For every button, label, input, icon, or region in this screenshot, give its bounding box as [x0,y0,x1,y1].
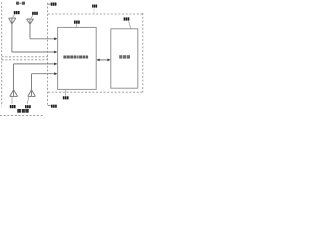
arrowhead into RF box (wire 3) [54,63,57,66]
outer dashed right edge [142,13,144,92]
node label 10-A (top-left figure tag) [16,2,25,5]
wire ANT4 to RF box [31,74,33,90]
outer dashed bottom edge [48,91,143,93]
label 104 (controller box) [124,17,131,28]
antenna ANT3 (bottom-left) [10,90,18,97]
label 102 (RF box) [74,21,80,28]
wire ANT2 to RF box [29,24,31,39]
dashed line bottom (next figure edge) [0,115,44,117]
antenna ANT2 (top-right) [27,19,34,24]
arrowhead into RF box (wire 1) [54,51,57,54]
label 112 (ANT2) [31,12,38,19]
label 116 (ANT4) [25,97,31,108]
label 110 (ANT1) [13,11,20,17]
arrowhead right (into controller) [107,59,110,62]
wire ANT3 to RF box [13,64,15,90]
label 106 [92,5,97,14]
label 118 (below RF box) [63,90,69,100]
controller box text (CJK blob row) [119,55,130,58]
figure caption (bottom-left CJK blobs) [17,109,28,113]
antenna ANT1 (top-left) [9,18,16,24]
dashed divider y=59.8 (box B top) [2,59,48,61]
dashed box right outline (processing module) [48,13,143,92]
left dashed edge [1,2,3,106]
label 114 (ANT3) [10,97,16,108]
label 120 (bottom of divider) [48,105,57,108]
dashed divider y=56.8 (box A bottom) [2,56,48,58]
label 100 [48,3,57,6]
wire RF box to controller (double arrow) [98,59,110,61]
RF box text (CJK blob row) [63,56,88,59]
dashed box left outline (antenna module) [2,2,48,106]
RF processor box U1 [58,27,97,89]
arrowhead into RF box (wire 4) [54,72,57,75]
outer dashed top edge [48,13,143,15]
controller box U2 [111,29,138,88]
arrowhead left (into RF box) [96,59,99,62]
antenna ANT4 (bottom-right) [28,90,36,97]
wire ANT1 to RF box [11,24,13,52]
divider dashed edge x=47.6 [47,3,49,106]
arrowhead into RF box (wire 2) [54,37,57,40]
